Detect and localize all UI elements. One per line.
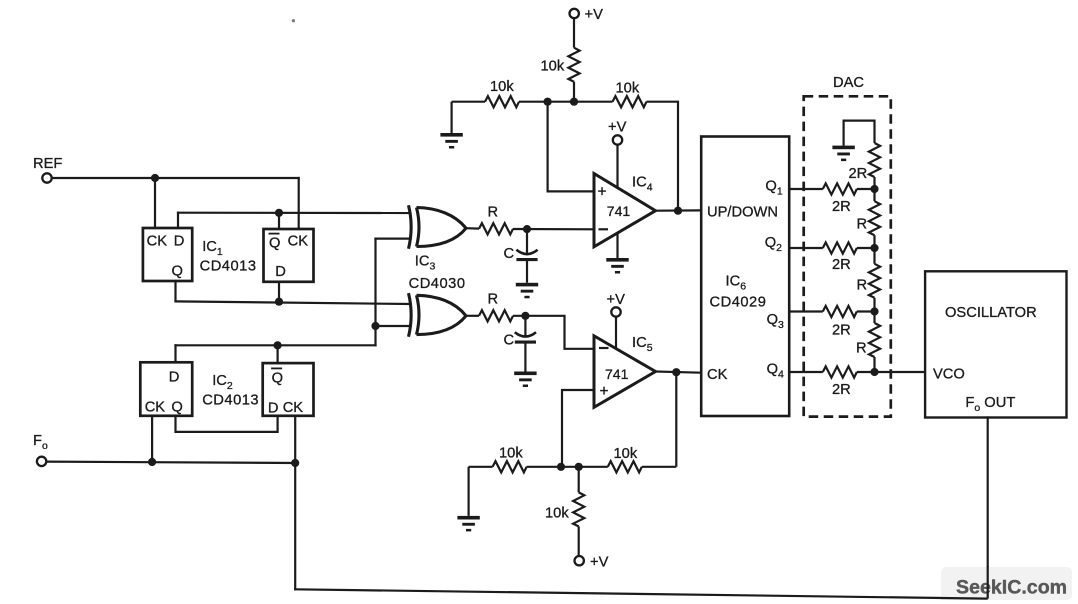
wire node A horizontal to XOR1 top input	[178, 212, 411, 215]
wire IC4 output to IC6	[656, 209, 702, 212]
wire 10k to IC5 output node	[642, 466, 677, 468]
wire +V to IC4 top edge	[616, 145, 618, 188]
svg-text:R: R	[857, 278, 868, 294]
svg-text:10k: 10k	[614, 446, 638, 462]
resistor R lower	[479, 310, 513, 321]
ground under C upper	[516, 283, 538, 299]
svg-text:10k: 10k	[616, 80, 640, 96]
junction dot R/C lower	[521, 312, 529, 320]
resistor 10k lower-right	[608, 461, 642, 472]
resistor 2R on Q4	[823, 366, 857, 377]
resistor 10k lower-left	[493, 461, 527, 472]
wire IC5 output to IC6 CK	[656, 372, 702, 373]
wire bias dot down to 10k vertical	[578, 467, 580, 493]
svg-text:CD4013: CD4013	[202, 393, 259, 409]
resistor 10k upper-right	[613, 96, 647, 107]
wire ladder top loop to ground	[844, 121, 875, 146]
junction dot bias lower-left	[557, 463, 565, 471]
wire bias to IC4 noninverting input	[548, 102, 594, 192]
op-amp IC4	[594, 174, 656, 247]
svg-text:OSCILLATOR: OSCILLATOR	[945, 305, 1037, 321]
resistor R ladder 3	[869, 323, 880, 357]
resistor 2R on Q1	[823, 183, 857, 194]
op-amp IC5	[594, 336, 656, 408]
ground DAC	[832, 146, 854, 162]
svg-text:2R: 2R	[832, 257, 851, 273]
svg-text:+V: +V	[590, 555, 609, 571]
svg-text:741: 741	[605, 366, 629, 382]
junction dot IC4 output	[674, 207, 682, 215]
wire XOR1 output to R	[466, 227, 479, 230]
capacitor C upper	[516, 229, 537, 283]
junction dot ladder Q1	[870, 185, 878, 193]
ground stub lower-left	[468, 467, 470, 516]
wire Q3 node to R3	[873, 312, 875, 324]
wire bias rail lower	[469, 466, 493, 468]
junction dot ladder Q3	[870, 307, 878, 315]
watermark SeekIC.com	[941, 567, 1072, 600]
svg-text:Q: Q	[172, 263, 183, 279]
wire oscillator output drop	[987, 418, 989, 599]
resistor 10k upper-left	[485, 96, 519, 107]
junction dot IC5 output	[672, 368, 680, 376]
wire XOR1 bottom input stub	[376, 238, 411, 240]
svg-text:+V: +V	[585, 7, 604, 23]
wire REF corner down to CK of IC1b	[298, 178, 300, 229]
wire Q3 to ladder	[857, 310, 875, 312]
svg-text:2R: 2R	[832, 382, 851, 398]
xor gate IC3 upper	[409, 205, 467, 248]
ground upper-left	[440, 133, 462, 149]
wire Q1 node to R1	[873, 189, 875, 201]
wire Fo horizontal	[46, 462, 295, 463]
wire +V to 10k vertical	[573, 18, 575, 47]
ground under IC4	[606, 258, 628, 274]
wire IC5 noninverting input to bias	[562, 390, 594, 467]
resistor R upper	[479, 223, 513, 234]
wire node C horizontal	[176, 344, 376, 346]
wire XOR2 bottom input stub	[376, 325, 411, 327]
resistor 10k vertical top	[568, 48, 579, 82]
svg-text:D: D	[174, 234, 185, 250]
label minus of IC4	[599, 228, 609, 230]
wire IC4 bottom edge to ground	[616, 233, 618, 258]
wire D of IC1a up	[177, 213, 179, 228]
wire bias rail upper	[452, 101, 485, 103]
svg-text:C: C	[504, 246, 515, 262]
junction dot REF/CK	[151, 174, 159, 182]
DAC dashed box	[804, 96, 891, 416]
svg-text:R: R	[857, 217, 868, 233]
wire R3 to Q4 node	[873, 357, 875, 372]
svg-text:10k: 10k	[541, 59, 565, 75]
wire R to IC4 inverting input	[513, 228, 594, 231]
svg-text:Q: Q	[272, 370, 283, 386]
wire Fo junction up to CK of IC2a	[151, 416, 153, 462]
flip-flop IC1a box	[143, 228, 192, 281]
ground stub upper-left	[451, 102, 453, 133]
svg-text:CK: CK	[288, 234, 309, 250]
flip-flop IC2b box	[263, 363, 314, 416]
power +V bottom terminal	[575, 556, 584, 565]
terminal REF	[42, 173, 51, 182]
svg-text:CK: CK	[145, 399, 166, 415]
junction Fo/CK IC2b dot	[291, 459, 299, 467]
wire feedback left vertical	[294, 463, 296, 589]
resistor 10k vertical bottom	[573, 492, 584, 526]
svg-text:10k: 10k	[499, 446, 523, 462]
wire Q2 pin	[789, 247, 823, 249]
oscillator box	[925, 271, 1066, 417]
resistor R ladder 1	[869, 201, 880, 235]
svg-text:UP/DOWN: UP/DOWN	[707, 205, 778, 221]
svg-text:2R: 2R	[849, 166, 868, 182]
svg-text:10k: 10k	[490, 79, 514, 95]
svg-text:VCO: VCO	[933, 367, 965, 383]
power +V terminal IC5	[611, 307, 620, 316]
power +V top terminal	[570, 9, 579, 18]
svg-text:R: R	[488, 292, 499, 308]
wire D of IC2a up	[174, 345, 176, 362]
wire XOR lower-input vertical bus	[374, 239, 376, 346]
wire 10k to bias node	[573, 82, 575, 102]
wire node A drop to Qbar of IC1b	[278, 213, 280, 229]
flip-flop IC1b box	[264, 229, 314, 282]
terminal Fo	[37, 457, 46, 466]
wire Q1 to ladder	[857, 188, 875, 190]
junction dot bias left	[544, 98, 552, 106]
svg-text:CD4029: CD4029	[710, 295, 767, 311]
svg-text:D: D	[268, 400, 279, 416]
junction dot R/C upper	[523, 225, 531, 233]
IC6 CD4029 box	[701, 137, 789, 417]
wire 10k to IC4 output node	[647, 102, 679, 211]
wire node C drop to Qbar of IC2b	[277, 345, 279, 363]
svg-text:CK: CK	[147, 234, 168, 250]
resistor 2R ladder top	[869, 143, 880, 177]
wire overlay on watermark	[941, 566, 988, 599]
svg-text:CK: CK	[283, 400, 304, 416]
svg-text:+V: +V	[607, 292, 626, 308]
svg-text:+: +	[598, 184, 607, 201]
wire between bias dots	[519, 101, 613, 103]
speck artifact	[292, 19, 295, 22]
wire node B rise to D of IC1b	[278, 282, 280, 302]
junction dot ladder Q4	[870, 368, 878, 376]
junction dot bias right	[570, 98, 578, 106]
svg-text:DAC: DAC	[833, 75, 864, 91]
svg-text:R: R	[856, 341, 867, 357]
wire Fo junction up to CK of IC2b	[294, 416, 296, 463]
wire R1 to Q2 node	[873, 235, 875, 248]
wire REF horizontal	[52, 177, 299, 179]
ground lower-left	[457, 516, 479, 532]
junction node C dot	[274, 341, 282, 349]
svg-text:741: 741	[607, 203, 631, 219]
wire feedback bottom horizontal	[295, 589, 988, 598]
svg-text:CD4030: CD4030	[409, 276, 466, 292]
wire R to IC5 inverting input	[513, 316, 594, 349]
resistor 2R on Q2	[823, 242, 857, 253]
wire 2R to Q1 node	[873, 177, 875, 189]
ground under C lower	[514, 372, 536, 388]
svg-text:2R: 2R	[832, 199, 851, 215]
wire IC5 output node down	[675, 372, 677, 467]
wire 10k to +V bottom	[578, 526, 580, 556]
svg-text:R: R	[488, 205, 499, 221]
svg-text:REF: REF	[33, 156, 62, 172]
resistor R ladder 2	[869, 264, 880, 298]
svg-text:D: D	[169, 370, 180, 386]
wire node B horizontal to XOR2 top input	[176, 301, 411, 304]
wire REF junction to CK of IC1a	[154, 178, 156, 228]
svg-text:Q: Q	[269, 236, 280, 252]
svg-text:Q: Q	[171, 400, 182, 416]
capacitor C lower	[515, 316, 536, 372]
svg-text:SeekIC.com: SeekIC.com	[956, 577, 1067, 599]
svg-text:CD4013: CD4013	[200, 259, 257, 275]
flip-flop IC2a box	[140, 362, 192, 416]
wire Q2 node to R2	[873, 248, 875, 264]
wire +V to IC5 top edge	[615, 317, 617, 349]
resistor 2R on Q3	[823, 306, 857, 317]
svg-text:+: +	[600, 383, 609, 400]
junction Fo/CK IC2a dot	[148, 458, 156, 466]
wire Q of IC1a down	[174, 281, 176, 301]
svg-text:2R: 2R	[832, 323, 851, 339]
svg-text:C: C	[504, 333, 515, 349]
power +V terminal IC4	[613, 135, 622, 144]
svg-text:+V: +V	[608, 119, 627, 135]
svg-text:CK: CK	[707, 367, 728, 383]
wire Q4 node to oscillator VCO	[857, 371, 925, 373]
svg-text:10k: 10k	[545, 506, 569, 522]
wire Q1 pin	[789, 188, 823, 190]
wire Q of IC2a to D of IC2b	[176, 416, 278, 432]
junction dot bias lower-right	[575, 463, 583, 471]
wire R2 to Q3 node	[873, 298, 875, 312]
wire XOR2 output to R	[466, 315, 479, 317]
xor gate IC3 lower	[409, 293, 467, 337]
junction node A dot	[275, 209, 283, 217]
wire Q2 to ladder	[857, 247, 875, 249]
junction dot ladder Q2	[870, 244, 878, 252]
wire between lower bias dots	[527, 466, 608, 468]
label minus of IC5	[599, 347, 609, 349]
svg-text:D: D	[275, 264, 286, 280]
junction node B dot	[275, 298, 283, 306]
wire Q4 pin	[789, 371, 823, 373]
wire Q3 pin	[789, 310, 823, 312]
junction XOR bus dot	[371, 322, 379, 330]
